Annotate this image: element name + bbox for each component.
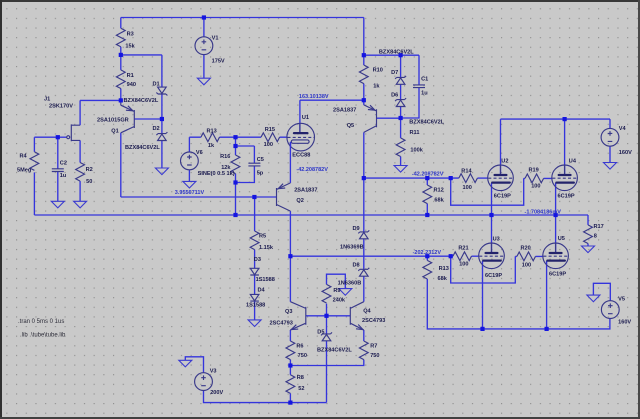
node D7 top xyxy=(399,53,403,57)
svg-text:V5: V5 xyxy=(618,297,625,303)
resistor R21 xyxy=(453,252,472,261)
node U4 cathode bus xyxy=(554,213,558,217)
svg-text:1u: 1u xyxy=(421,91,428,97)
wire D5 bottom to neg rail xyxy=(326,341,328,403)
triode U4 xyxy=(552,165,578,191)
node Q2 collector xyxy=(288,254,292,258)
triode U5 xyxy=(543,243,569,269)
ground C2 xyxy=(51,201,64,208)
svg-text:D2: D2 xyxy=(153,126,160,132)
node R21 left xyxy=(449,254,453,258)
zener D1 xyxy=(156,87,167,95)
transistor Q2 xyxy=(277,183,291,211)
svg-text:R8: R8 xyxy=(297,375,304,381)
svg-text:5Meg: 5Meg xyxy=(17,167,32,173)
svg-text:1S1588: 1S1588 xyxy=(246,303,265,309)
resistor R19 xyxy=(525,174,544,183)
wire V6 top lead xyxy=(188,137,190,152)
svg-text:-42.208782V: -42.208782V xyxy=(412,172,444,178)
svg-text:R14: R14 xyxy=(461,169,472,175)
node R12 bottom bus xyxy=(425,213,429,217)
wire D6 bottom to node xyxy=(400,107,402,119)
wire R13b bottom L to V5 xyxy=(427,279,610,329)
svg-text:1N6369B: 1N6369B xyxy=(340,245,364,251)
svg-text:R6: R6 xyxy=(296,344,303,350)
ground V3 xyxy=(179,360,192,367)
svg-text:1k: 1k xyxy=(373,84,380,90)
svg-text:J1: J1 xyxy=(44,97,50,103)
jfet J1 xyxy=(67,124,80,141)
capacitor C2 xyxy=(52,169,64,172)
svg-text:V1: V1 xyxy=(212,36,219,42)
resistor R17 xyxy=(584,225,593,244)
node R3-R1 xyxy=(119,53,123,57)
ground R2 xyxy=(74,201,87,208)
svg-text:BZX84C6V2L: BZX84C6V2L xyxy=(125,145,160,151)
ground R17 xyxy=(582,246,595,253)
wire U3 cathode lead xyxy=(482,261,484,329)
svg-text:D6: D6 xyxy=(391,93,398,99)
wire R15 leads xyxy=(236,136,287,138)
svg-text:100: 100 xyxy=(531,183,540,189)
resistor R10 xyxy=(359,65,368,84)
wire D5 top lead xyxy=(326,316,328,334)
wire R7 bottom to R6 node xyxy=(290,360,363,366)
wire R2 bottom to ground xyxy=(79,181,81,201)
resistor R13b xyxy=(423,260,432,279)
wire V3 top to ground xyxy=(185,357,203,373)
svg-text:R9: R9 xyxy=(333,288,340,294)
wire J1 drain lead xyxy=(79,100,81,125)
node C5 bottom branch xyxy=(233,180,237,184)
wire R1 bottom xyxy=(120,89,122,101)
wire R16 bottom node xyxy=(235,174,237,183)
node R8 bottom xyxy=(288,401,292,405)
wire V5 top to ground xyxy=(593,283,610,301)
wire V4 leads xyxy=(609,119,611,162)
svg-text:6C19P: 6C19P xyxy=(549,271,566,277)
node C5 top branch xyxy=(233,144,237,148)
wire Q5 collector down to -42V bus xyxy=(363,132,365,178)
wire D9 to D8 xyxy=(363,239,365,269)
wire top supply rail xyxy=(121,17,364,19)
transistor Q1 xyxy=(121,100,135,132)
svg-text:5p: 5p xyxy=(257,171,264,177)
wire R8 leads xyxy=(289,366,291,403)
svg-text:200V: 200V xyxy=(210,390,223,396)
wire D1 bottom to base node xyxy=(161,94,163,119)
svg-text:15k: 15k xyxy=(125,43,135,49)
svg-text:1u: 1u xyxy=(60,173,67,179)
svg-text:Q5: Q5 xyxy=(347,123,354,129)
svg-text:1k: 1k xyxy=(208,143,215,149)
svg-text:U1: U1 xyxy=(302,115,309,121)
wire Q3 Q4 base rail xyxy=(306,315,351,317)
svg-text:Q1: Q1 xyxy=(111,129,118,135)
wire R5 to D3 xyxy=(254,250,256,269)
wire U2 cathode lead xyxy=(491,183,493,215)
svg-text:Q4: Q4 xyxy=(363,309,371,315)
triode U3 xyxy=(479,243,505,269)
svg-text:100: 100 xyxy=(264,142,273,148)
wire U5 plate lead xyxy=(555,215,557,253)
wire detour R14 node to R19 left xyxy=(451,178,524,205)
zener D8 xyxy=(358,268,369,276)
wire Q1 base to D1/D2 node xyxy=(134,118,162,120)
svg-text:750: 750 xyxy=(370,353,379,359)
wire Q2 collector down xyxy=(289,211,291,256)
svg-text:6C19P: 6C19P xyxy=(558,194,575,200)
wire U1 plate lead xyxy=(299,100,301,133)
svg-text:2SA1837: 2SA1837 xyxy=(333,108,356,114)
diode D4 xyxy=(250,294,259,301)
wire R9 bottom lead xyxy=(326,304,328,316)
svg-text:D9: D9 xyxy=(353,226,360,232)
svg-text:R3: R3 xyxy=(127,31,134,37)
svg-text:50: 50 xyxy=(86,179,92,185)
svg-text:BZX84C6V2L: BZX84C6V2L xyxy=(124,98,159,104)
wire R13a leads xyxy=(189,136,235,138)
svg-text:R4: R4 xyxy=(20,153,28,159)
svg-text:100k: 100k xyxy=(410,148,423,154)
node R10 top xyxy=(362,53,366,57)
svg-text:U3: U3 xyxy=(493,237,500,243)
wire R17 top lead xyxy=(587,215,589,225)
wire long mid bus xyxy=(34,214,588,216)
wire D4 to ground xyxy=(254,301,256,320)
svg-text:2SA1837: 2SA1837 xyxy=(294,188,317,194)
svg-text:BZX84C6V2L: BZX84C6V2L xyxy=(317,348,352,354)
resistor R2 xyxy=(76,163,85,182)
wire C1 top branch xyxy=(418,55,420,85)
svg-text:3.9556711V: 3.9556711V xyxy=(175,190,205,196)
svg-text:D5: D5 xyxy=(317,330,324,336)
resistor R20 xyxy=(517,252,536,261)
svg-text:R19: R19 xyxy=(529,167,539,173)
resistor R4 xyxy=(30,152,39,171)
capacitor C1 xyxy=(413,85,425,88)
wire D7 to D6 xyxy=(400,84,402,99)
wire V1 top tap xyxy=(203,18,205,37)
wire V1 bottom to ground xyxy=(203,55,205,79)
wire D3 to D4 xyxy=(254,275,256,294)
svg-text:BZX84C6V2L: BZX84C6V2L xyxy=(379,49,414,55)
wire R10 node to C1 corner xyxy=(364,54,419,56)
svg-text:940: 940 xyxy=(127,82,136,88)
node R13a right xyxy=(233,135,237,139)
svg-text:163.10138V: 163.10138V xyxy=(299,94,329,100)
wire U2 plate lead xyxy=(500,119,502,174)
svg-text:2SC4793: 2SC4793 xyxy=(362,318,385,324)
svg-text:R5: R5 xyxy=(259,234,266,240)
wire R3-R1 node xyxy=(120,47,122,70)
wire U5 cathode lead xyxy=(546,261,548,329)
resistor R12 xyxy=(423,185,432,204)
triode U1 xyxy=(287,123,315,151)
ground V1 xyxy=(197,78,210,85)
wire V3 bottom neg rail xyxy=(204,390,327,402)
voltage source V5 xyxy=(601,301,619,319)
wire J1 source to R2 xyxy=(79,140,81,162)
wire -42V bus xyxy=(364,177,459,179)
node R6-R7 xyxy=(288,363,292,367)
svg-text:U2: U2 xyxy=(501,159,508,165)
wire R4 bottom to bus xyxy=(33,172,35,215)
svg-text:100: 100 xyxy=(459,261,468,267)
svg-text:2SA1015GR: 2SA1015GR xyxy=(97,118,129,124)
wire R19 leads xyxy=(524,177,552,179)
resistor R13a xyxy=(201,133,220,142)
svg-text:1S1588: 1S1588 xyxy=(256,277,275,283)
voltage source V1 xyxy=(195,37,213,55)
svg-text:R21: R21 xyxy=(458,245,468,251)
svg-text:6C19P: 6C19P xyxy=(485,273,502,279)
node D1-D2 base xyxy=(160,117,164,121)
wire feedback node down to bus xyxy=(235,183,237,216)
svg-text:R7: R7 xyxy=(370,344,377,350)
wire J1 drain to Q1 emitter node xyxy=(80,99,121,101)
svg-text:R15: R15 xyxy=(265,127,275,133)
wire R17 bottom to ground xyxy=(587,244,589,247)
wire J1 gate lead xyxy=(58,136,67,138)
svg-text:52: 52 xyxy=(298,386,304,392)
resistor R9 xyxy=(322,284,331,303)
svg-text:2SK170V: 2SK170V xyxy=(49,103,73,109)
wire R11 top lead xyxy=(400,118,402,138)
svg-text:240k: 240k xyxy=(333,297,346,303)
node U5 cathode rail xyxy=(545,327,549,331)
node R13b top xyxy=(425,254,429,258)
resistor R14 xyxy=(459,174,478,183)
svg-text:160V: 160V xyxy=(619,150,632,156)
resistor R7 xyxy=(359,341,368,360)
wire R6 bottom node xyxy=(289,360,291,366)
svg-text:SINE(0 0.5 1k): SINE(0 0.5 1k) xyxy=(198,171,235,177)
node U2 cathode bus xyxy=(489,213,493,217)
capacitor C5 xyxy=(248,163,260,166)
wire R10 bottom lead xyxy=(363,84,365,101)
wire Q2 emitter to U1 cathode xyxy=(289,142,291,183)
wire detour R21 node to R20 left xyxy=(451,256,516,283)
wire Q3 collector up xyxy=(289,256,291,302)
node Q1 emitter xyxy=(119,98,123,102)
wire Q5 base xyxy=(377,117,401,119)
svg-text:-1.7084186mV: -1.7084186mV xyxy=(525,209,562,215)
ground V6 xyxy=(183,181,196,188)
wire -202V bus xyxy=(290,255,453,257)
wire Q5 emitter vert xyxy=(363,100,365,105)
svg-text:2SC4793: 2SC4793 xyxy=(270,321,293,327)
transistor Q5 xyxy=(364,105,377,132)
zener D9 xyxy=(358,230,369,238)
svg-text:1.15k: 1.15k xyxy=(259,245,274,251)
svg-text:-202.2312V: -202.2312V xyxy=(413,250,442,256)
svg-text:C5: C5 xyxy=(257,157,264,163)
wire top rail down to R10 node xyxy=(363,18,365,56)
wire U3 plate lead xyxy=(491,215,493,253)
svg-text:160V: 160V xyxy=(618,320,631,326)
svg-text:D8: D8 xyxy=(353,262,360,268)
wire R11 bottom to ground xyxy=(400,157,402,166)
svg-text:6C19P: 6C19P xyxy=(494,194,511,200)
svg-text:R12: R12 xyxy=(434,187,444,193)
node Q5 collector bus xyxy=(362,176,366,180)
ground R9 xyxy=(339,289,352,296)
svg-text:R2: R2 xyxy=(86,167,93,173)
node V1 tap xyxy=(202,15,206,19)
voltage source V4 xyxy=(601,128,619,146)
ground R11 xyxy=(394,166,407,173)
wire R20 leads xyxy=(515,255,543,257)
resistor R5 xyxy=(250,231,259,250)
wire U1 plate to Q5 node xyxy=(300,99,364,101)
resistor R15 xyxy=(261,133,280,142)
node U1 plate Q5 xyxy=(362,98,366,102)
wire R9 top hook to ground xyxy=(327,274,346,288)
wire V6 bottom to ground xyxy=(188,170,190,182)
svg-text:.lib .\tube\tube.lib: .lib .\tube\tube.lib xyxy=(20,333,66,339)
svg-text:BZX84C6V2L: BZX84C6V2L xyxy=(409,119,444,125)
diode D3 xyxy=(250,268,259,275)
wire R13b top lead xyxy=(426,256,428,260)
svg-text:12k: 12k xyxy=(221,165,231,171)
svg-text:D4: D4 xyxy=(258,288,266,294)
svg-text:68k: 68k xyxy=(438,276,448,282)
wire Q3 emitter to R6 xyxy=(289,330,291,341)
node U3 cathode rail xyxy=(480,327,484,331)
node output bases xyxy=(324,314,328,318)
resistor R6 xyxy=(286,341,295,360)
transistor Q3 xyxy=(290,302,305,330)
wire C5 bottom branch xyxy=(236,166,255,183)
ground V4 xyxy=(604,163,617,170)
svg-text:750: 750 xyxy=(298,353,307,359)
svg-text:.tran 0 5ms 0 1us: .tran 0 5ms 0 1us xyxy=(18,319,64,325)
wire Q1 collector to Q2 base xyxy=(121,196,277,198)
svg-text:R16: R16 xyxy=(220,154,230,160)
svg-text:Q3: Q3 xyxy=(285,309,292,315)
wire R14 right lead to U2 grid xyxy=(477,177,487,179)
svg-text:R11: R11 xyxy=(410,130,420,136)
wire R21 right lead to U3 grid xyxy=(472,255,479,257)
svg-text:175V: 175V xyxy=(212,58,225,64)
voltage source V3 xyxy=(195,373,213,391)
ground D4 xyxy=(248,320,261,327)
wire Q4 emitter to R7 xyxy=(363,330,365,341)
svg-text:R13: R13 xyxy=(207,128,217,134)
svg-text:R1: R1 xyxy=(127,73,134,79)
wire C2 top xyxy=(57,137,59,169)
wire Q1 collector down xyxy=(120,133,122,197)
svg-text:D3: D3 xyxy=(254,257,261,263)
transistor Q4 xyxy=(350,302,364,330)
svg-text:1N6360B: 1N6360B xyxy=(338,281,362,287)
ground D2 xyxy=(155,168,168,175)
svg-text:8: 8 xyxy=(594,233,597,239)
resistor R3 xyxy=(116,28,125,47)
wire R4 top xyxy=(34,137,57,152)
svg-text:ECC88: ECC88 xyxy=(292,152,310,158)
svg-text:Q2: Q2 xyxy=(296,198,303,204)
wire top right bus xyxy=(501,118,611,120)
svg-text:V3: V3 xyxy=(210,369,217,375)
resistor R11 xyxy=(396,138,405,157)
wire R12 leads xyxy=(426,178,428,215)
zener D5 xyxy=(321,332,332,340)
wire C2 bottom to ground xyxy=(57,172,59,202)
svg-text:U5: U5 xyxy=(558,236,565,242)
wire D2 bottom to ground xyxy=(161,141,163,168)
node R12 top xyxy=(425,176,429,180)
svg-text:D7: D7 xyxy=(391,70,398,76)
wire R16 top node xyxy=(235,137,237,155)
node D6-C1-R11 xyxy=(399,116,403,120)
node R5 tap xyxy=(252,195,256,199)
svg-text:R17: R17 xyxy=(594,224,604,230)
svg-text:R13: R13 xyxy=(439,266,449,272)
resistor R16 xyxy=(231,155,240,174)
wire zener string D9 top xyxy=(363,178,365,232)
node R14 left xyxy=(449,176,453,180)
node U4 plate tap xyxy=(563,117,567,121)
wire node to D1 top xyxy=(121,55,162,87)
svg-text:C1: C1 xyxy=(421,77,428,83)
svg-text:D1: D1 xyxy=(153,81,160,87)
wire R3 top lead xyxy=(120,18,122,29)
wire D8 to Q4 collector xyxy=(363,276,365,301)
resistor R8 xyxy=(286,375,295,394)
wire base node to D2 top xyxy=(161,119,163,133)
svg-text:R10: R10 xyxy=(373,68,383,74)
wire U4 cathode lead xyxy=(555,183,557,215)
svg-text:68k: 68k xyxy=(434,198,444,204)
wire C5 top branch xyxy=(236,146,255,163)
svg-text:R20: R20 xyxy=(521,245,531,251)
svg-text:-42.208782V: -42.208782V xyxy=(296,167,328,173)
wire R10 top lead xyxy=(363,55,365,65)
svg-text:100: 100 xyxy=(522,263,531,269)
wire C1 bottom branch xyxy=(401,88,419,118)
node J1 gate xyxy=(56,135,60,139)
svg-text:V4: V4 xyxy=(619,126,627,132)
svg-text:C2: C2 xyxy=(60,161,67,167)
wire D7 top lead xyxy=(400,55,402,77)
wire R5 top lead xyxy=(254,197,256,231)
triode U2 xyxy=(488,165,514,191)
resistor R1 xyxy=(116,70,125,89)
svg-text:V6: V6 xyxy=(196,150,203,156)
node feedback-bus xyxy=(233,213,237,217)
wire U4 plate lead xyxy=(564,119,566,174)
zener D6 xyxy=(395,98,406,106)
voltage source V6 xyxy=(181,152,199,170)
zener D2 xyxy=(156,132,167,140)
svg-text:U4: U4 xyxy=(569,159,577,165)
ground V5 xyxy=(587,295,600,302)
svg-text:100: 100 xyxy=(463,185,472,191)
zener D7 xyxy=(395,76,406,84)
